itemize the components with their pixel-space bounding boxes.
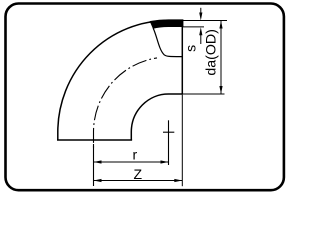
extension line bottom of OD [182, 93, 224, 95]
dimension line Z [94, 180, 183, 182]
svg-text:r: r [132, 147, 137, 163]
extension line inner surface [182, 26, 204, 28]
sectioned wall (black wedge) [150, 20, 183, 29]
dimension s upper arrow [200, 8, 202, 14]
centerline extension below end face [93, 144, 95, 186]
svg-text:s: s [183, 45, 199, 52]
dimension line da(OD) [220, 21, 222, 95]
extension line top (outer surface) [182, 20, 227, 22]
section break line [153, 28, 182, 56]
rounded border frame [6, 4, 284, 191]
inner wall arc (elbow inside surface) [131, 94, 182, 140]
dimension line r [94, 161, 169, 163]
bottom end face [57, 139, 132, 141]
bend center cross [163, 131, 174, 133]
centerline arc (dash-dot) [94, 58, 158, 149]
extension line right end face down [181, 95, 183, 187]
svg-text:da(OD): da(OD) [203, 29, 219, 76]
outer wall arc (elbow outside surface) [58, 21, 169, 141]
dimension s lower arrow [200, 34, 202, 44]
right end face [181, 21, 183, 95]
svg-text:Z: Z [134, 166, 143, 182]
